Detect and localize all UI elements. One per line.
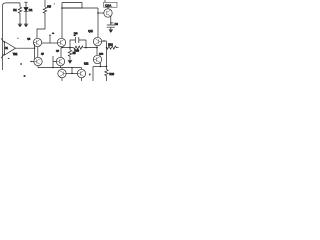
resistor R5 [37,0,51,38]
node [106,47,107,48]
node [49,35,50,36]
transistor Q2 [27,38,41,57]
op-amp IC1 [1,38,18,58]
wire Q2-Q3 link [42,42,58,44]
svg-text:**: ** [52,34,54,36]
wire mid drop [71,68,73,74]
node [100,66,101,67]
svg-text:.: . [54,3,55,5]
wire bottom bus [38,67,82,69]
node at loop bottom [61,7,63,9]
svg-text:C1: C1 [5,46,9,50]
node [61,47,62,48]
transistor Q8 [58,69,66,81]
wire Q8 top [61,68,63,70]
svg-text:R12: R12 [84,62,89,65]
node [96,47,98,49]
diode D1 [24,2,33,24]
svg-text:R16: R16 [109,73,114,76]
transistor Q5 [34,53,45,67]
wire tap [49,35,51,43]
node Q1A emitter [110,22,111,23]
svg-text:D1: D1 [29,8,33,12]
resistor R10 [74,46,83,53]
svg-text:R9: R9 [73,53,77,55]
wire Q5 base stub [31,61,34,63]
wire mid emitter bus [62,47,98,48]
node [52,67,53,68]
wire Q1A base [98,12,104,14]
wire Q3 to Q4 [60,48,62,58]
wire top-left [3,3,21,6]
ground [68,60,72,63]
svg-text:R13: R13 [108,43,113,46]
svg-text:R10: R10 [74,50,79,53]
node [71,67,72,68]
svg-text:x: x [24,75,26,77]
capacitor C8 [107,23,119,29]
transistor Q4 [56,57,64,67]
node [85,47,87,49]
wire to right rail [62,7,98,9]
svg-text:**: ** [74,36,76,38]
resistor R13 [107,43,119,49]
wire right rail lower [106,41,108,67]
svg-text:TM1: TM1 [13,54,18,56]
svg-text:C8: C8 [115,23,119,26]
resistor R16 [105,67,115,82]
capacitor C11 [70,33,86,48]
wire output bus [93,66,107,68]
node [106,66,108,68]
ground [109,30,113,33]
wire right rail upper [97,8,99,37]
node Q1A base tap [97,12,99,14]
svg-text:Q2: Q2 [27,38,31,40]
svg-text:..: .. [8,57,10,59]
wire base rail [34,44,36,59]
node [103,40,104,41]
ground [24,24,28,27]
wire loop top middle [62,3,82,39]
transistor Q1A [104,0,117,25]
wire op-amp output [16,47,35,49]
svg-text:Q1A: Q1A [105,3,112,7]
svg-text:Q5: Q5 [41,53,45,55]
ground [18,24,22,27]
resistor R9 [68,48,76,61]
transistor Q7 [93,55,101,66]
svg-text:-: - [18,37,19,39]
svg-text:v: v [89,74,91,76]
transistor Q6 [88,30,101,56]
wire out down [92,67,94,82]
node [69,47,71,49]
wire Q6 base tap [102,40,107,42]
svg-text:C11: C11 [74,33,79,35]
node [71,73,72,74]
svg-text:R5: R5 [47,5,51,9]
wire Q8-Q9 base link [66,73,77,75]
node [30,61,31,62]
node [34,48,35,49]
svg-text:R1: R1 [13,8,17,12]
resistor R1 [13,3,22,24]
transistor Q3 [56,38,66,52]
svg-text:=: = [21,63,23,65]
svg-text:Q12: Q12 [99,54,104,56]
transistor Q9 [77,69,85,81]
wire Q9 top [81,68,83,70]
svg-text:Q11: Q11 [88,30,93,33]
wire Q4 base [53,56,56,68]
wire left rail [2,6,4,70]
svg-text:Q3: Q3 [56,50,60,52]
